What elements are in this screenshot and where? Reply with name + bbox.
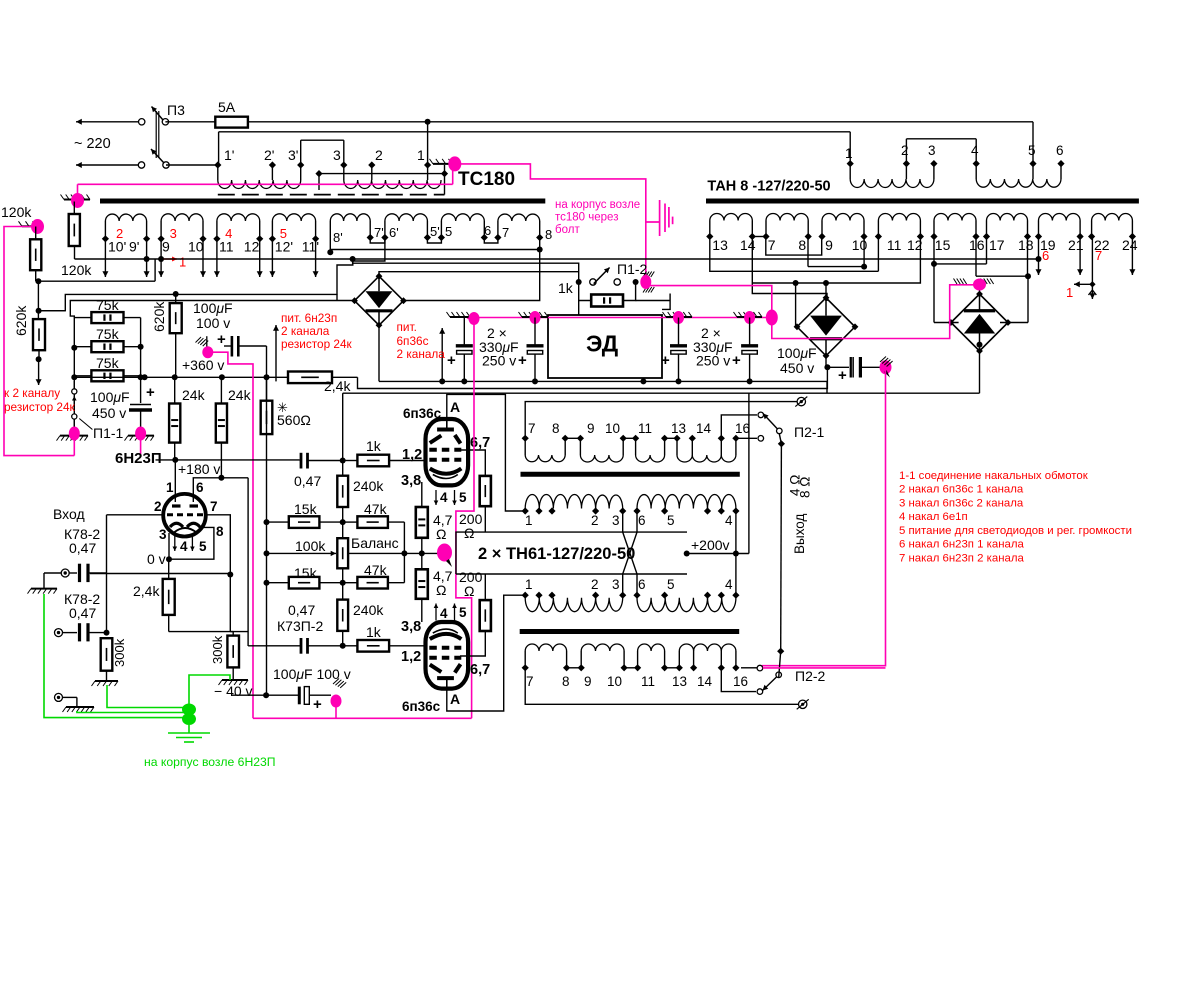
balance pot 100k bbox=[337, 538, 348, 568]
svg-text:120k: 120k bbox=[61, 262, 92, 278]
svg-text:6п36с: 6п36с bbox=[403, 406, 442, 421]
svg-text:18: 18 bbox=[1018, 237, 1034, 253]
resistor 240k #1 bbox=[337, 476, 348, 507]
green star ground node bbox=[182, 704, 196, 716]
wire bridge B1 left vertex feed bbox=[70, 301, 354, 348]
svg-text:2: 2 bbox=[375, 147, 383, 163]
resistor 75k #3 bbox=[91, 370, 123, 381]
wire grid pin7 to right bbox=[205, 515, 230, 632]
wire 6'5' tap staircase to left section bbox=[39, 238, 385, 311]
switch P2-2 bbox=[741, 667, 757, 669]
svg-text:21: 21 bbox=[1068, 237, 1084, 253]
magenta ground path to B3 with chassis hatch bbox=[772, 285, 976, 339]
svg-text:2: 2 bbox=[901, 143, 909, 158]
upper TH61 secondary winding 7-16 bbox=[522, 435, 529, 442]
svg-text:14: 14 bbox=[697, 674, 713, 689]
tube1 cathode to 4,7 Ohm bbox=[421, 482, 423, 507]
svg-text:11: 11 bbox=[638, 421, 652, 436]
6N23P plates bbox=[172, 504, 181, 507]
wire P1-2 right node link to B2 bbox=[636, 300, 671, 302]
TAH8 secondary winding 22-24 bbox=[1091, 221, 1093, 237]
junction at B2 top feed bbox=[823, 280, 829, 286]
resistor 300k #1 bbox=[101, 638, 113, 671]
ground chassis at TC180 pin 1 with magenta node bbox=[433, 163, 452, 165]
svg-text:+: + bbox=[447, 352, 456, 369]
svg-text:0,47: 0,47 bbox=[288, 602, 315, 618]
TC180 secondary winding 6'-5' bbox=[384, 221, 386, 238]
svg-text:3 накал 6п36с 2 канала: 3 накал 6п36с 2 канала bbox=[899, 497, 1024, 509]
ground chassis at P1-2 with magenta node bbox=[643, 272, 647, 278]
wire pin8 down to bridge B1 right vertex bbox=[404, 238, 539, 301]
svg-text:450 v: 450 v bbox=[780, 360, 814, 376]
wire ED box to B2 top link bbox=[662, 294, 670, 310]
svg-text:1: 1 bbox=[1066, 285, 1073, 300]
resistor 24k #2 bbox=[216, 404, 227, 443]
magenta ground bus over filter caps bbox=[468, 317, 772, 319]
620k resistor #2 bbox=[175, 294, 177, 303]
svg-text:8': 8' bbox=[333, 230, 343, 245]
svg-text:болт: болт bbox=[555, 224, 580, 236]
TC180 secondary filament winding 9-10 bbox=[160, 221, 162, 239]
crossover connection X bbox=[623, 511, 637, 595]
620k#1 bottom arrow bbox=[36, 356, 42, 362]
svg-text:пит.: пит. bbox=[397, 320, 417, 334]
svg-text:15: 15 bbox=[935, 237, 951, 253]
svg-text:П1-1: П1-1 bbox=[93, 425, 124, 441]
wire plate pin6 to 24k#2 bbox=[193, 478, 248, 495]
wire from switch to fuse bbox=[165, 121, 215, 123]
svg-text:3: 3 bbox=[159, 527, 167, 542]
svg-text:2: 2 bbox=[116, 226, 123, 241]
TC180 primary dashed shield line bbox=[218, 194, 445, 196]
input terminal 3 with ground bbox=[55, 693, 63, 701]
svg-text:4: 4 bbox=[725, 577, 733, 592]
wire lower pin7 to output terminal bbox=[525, 668, 798, 705]
svg-text:+: + bbox=[732, 352, 741, 369]
tie 5'-5 bbox=[427, 238, 441, 244]
svg-text:6: 6 bbox=[484, 223, 491, 238]
long heater link wire L1 bbox=[75, 258, 1039, 260]
wire upper pin7 to output terminal bbox=[525, 402, 797, 439]
svg-text:~ 220: ~ 220 bbox=[74, 136, 111, 152]
svg-text:47k: 47k bbox=[364, 501, 388, 517]
svg-text:16: 16 bbox=[735, 421, 750, 436]
svg-text:+200v: +200v bbox=[691, 537, 730, 553]
magenta wire from cap ground down to P2-2 bbox=[762, 367, 886, 665]
balance bus vertical down to -40v bbox=[266, 434, 268, 695]
transformer TAH8 primary winding 4-5-6 bbox=[973, 160, 980, 167]
bridge rectifier B2 (middle) bbox=[797, 298, 855, 356]
green earth symbol bbox=[188, 725, 190, 733]
svg-text:5: 5 bbox=[199, 539, 207, 554]
svg-text:на корпус возле: на корпус возле bbox=[555, 199, 640, 211]
green ground wire from input terminal 1 bbox=[44, 594, 186, 718]
svg-text:2 накал 6п36с 1 канала: 2 накал 6п36с 1 канала bbox=[899, 484, 1024, 496]
electronic choke block ED bbox=[548, 315, 662, 378]
svg-text:5': 5' bbox=[430, 224, 440, 239]
svg-text:6: 6 bbox=[1056, 143, 1064, 158]
wire grid row to pin7 drop bbox=[90, 573, 230, 575]
svg-text:15k: 15k bbox=[294, 565, 318, 581]
svg-text:+: + bbox=[661, 352, 670, 369]
svg-text:К73П-2: К73П-2 bbox=[277, 618, 323, 634]
ground chassis at cap C2c bbox=[737, 316, 762, 318]
svg-text:+: + bbox=[146, 384, 155, 401]
resistor 2,4k in +360v line bbox=[288, 372, 332, 384]
svg-text:8: 8 bbox=[545, 227, 552, 242]
input terminal 1 bbox=[61, 569, 69, 577]
svg-text:пит. 6н23п: пит. 6н23п bbox=[281, 311, 337, 325]
arrow down from pin 12' lead bbox=[271, 239, 273, 277]
TC180 primary tap junction bbox=[315, 170, 322, 177]
switch P3 gang linkage bbox=[155, 111, 157, 158]
ground chassis input 1 bbox=[31, 588, 57, 590]
svg-text:+: + bbox=[838, 367, 847, 384]
wire 120k#2 bottom junction bbox=[35, 270, 37, 281]
wire B1 bottom to minus bus bbox=[378, 325, 380, 381]
svg-text:5: 5 bbox=[459, 605, 467, 620]
resistor 560 Ohm bbox=[261, 401, 273, 434]
svg-text:16: 16 bbox=[969, 237, 985, 253]
arrow down from pin 11 lead bbox=[216, 239, 218, 277]
tube2 screen wire and 200 Ohm bbox=[460, 631, 485, 656]
wire pin6 node down long (to K73P-2 row) bbox=[247, 478, 249, 646]
ground chassis with magenta node at cap bottom bbox=[128, 435, 154, 437]
red note pit 6p36s 2 kanala with arrow bbox=[441, 328, 443, 381]
100k wiper arrow bbox=[264, 550, 270, 556]
magenta bias bus bottom bbox=[253, 717, 472, 719]
svg-text:1: 1 bbox=[179, 255, 186, 270]
svg-text:4: 4 bbox=[725, 513, 733, 528]
resistor 47k #2 bbox=[357, 577, 388, 589]
svg-text:7 накал 6н23п 2 канала: 7 накал 6н23п 2 канала bbox=[899, 552, 1024, 564]
svg-text:2,4k: 2,4k bbox=[133, 583, 160, 599]
resistor 1k #2 bbox=[343, 645, 358, 647]
svg-text:Ω: Ω bbox=[464, 583, 474, 599]
svg-text:0 v: 0 v bbox=[147, 551, 166, 567]
resistor 240k #2 bbox=[337, 600, 348, 631]
magenta heater bus wire (top long) bbox=[78, 183, 453, 185]
svg-text:+: + bbox=[518, 352, 527, 369]
svg-text:7: 7 bbox=[526, 674, 534, 689]
PSU minus bus Y1 bbox=[379, 380, 827, 382]
svg-text:5 питание для светодиодов и ре: 5 питание для светодиодов и рег. громкос… bbox=[899, 525, 1132, 537]
svg-text:П3: П3 bbox=[167, 102, 185, 118]
ground chassis 300k#2 bbox=[232, 667, 234, 680]
wire grid pin2 to input bbox=[107, 514, 165, 516]
resistor 47k #1 bbox=[357, 516, 388, 528]
ground chassis with magenta node at 120k#2 top bbox=[22, 225, 36, 227]
svg-text:2': 2' bbox=[264, 147, 274, 163]
wire +360v feed Y2 bbox=[358, 367, 828, 388]
svg-text:1,2: 1,2 bbox=[401, 649, 421, 665]
svg-text:6: 6 bbox=[196, 480, 204, 495]
svg-text:1k: 1k bbox=[366, 624, 382, 640]
svg-text:100μF: 100μF bbox=[90, 389, 130, 405]
svg-text:3': 3' bbox=[288, 147, 298, 163]
svg-text:75k: 75k bbox=[96, 326, 120, 342]
svg-text:Выход: Выход bbox=[792, 513, 807, 554]
bracket TC180 3prim to 3 bbox=[301, 139, 344, 141]
svg-text:240k: 240k bbox=[353, 602, 384, 618]
svg-text:6: 6 bbox=[1042, 248, 1049, 263]
TAH8 secondary winding 7-8 bbox=[765, 221, 767, 237]
wire TAH8 pin12 link bbox=[752, 237, 920, 284]
upper TH61 primary winding 1-4 bbox=[522, 507, 529, 514]
svg-text:13: 13 bbox=[672, 674, 687, 689]
wire P1-2 node down to ED box bbox=[578, 301, 580, 316]
svg-text:24: 24 bbox=[1122, 237, 1138, 253]
svg-text:− 40 v: − 40 v bbox=[214, 683, 253, 699]
svg-text:2 канала: 2 канала bbox=[281, 324, 330, 338]
svg-text:8 Ω: 8 Ω bbox=[798, 477, 813, 498]
svg-text:6,7: 6,7 bbox=[470, 435, 490, 451]
arrow down from pin 9' lead bbox=[146, 239, 148, 259]
TAH8 7-9 lower tie loop bbox=[766, 237, 822, 256]
svg-text:2 × ТН61-127/220-50: 2 × ТН61-127/220-50 bbox=[478, 545, 635, 563]
ground chassis at cap C2a bbox=[522, 316, 548, 318]
svg-text:12: 12 bbox=[244, 239, 260, 255]
TC180 secondary filament winding 11-12 bbox=[216, 221, 218, 239]
tube 6N23P envelope bbox=[163, 494, 206, 537]
ground chassis at cap C2b (right group) bbox=[666, 316, 692, 318]
transformer TAH8 primary winding 1-2-3 bbox=[847, 160, 854, 167]
magenta wire P1-2 ground to filter ground bus bbox=[646, 282, 772, 318]
svg-text:620k: 620k bbox=[151, 301, 167, 332]
tube1 screen wire and 200 Ohm bbox=[460, 450, 485, 476]
magenta feedback node blob bbox=[437, 544, 452, 562]
TC180 core bar bbox=[100, 199, 545, 204]
svg-text:11: 11 bbox=[641, 674, 655, 689]
resistor 75k #2 bbox=[91, 341, 123, 352]
svg-text:1: 1 bbox=[166, 480, 174, 495]
svg-text:1,2: 1,2 bbox=[402, 447, 422, 463]
arrow down from pin 10 lead bbox=[202, 239, 204, 277]
svg-text:3: 3 bbox=[612, 513, 620, 528]
arrow down from pin 12 lead bbox=[259, 239, 261, 277]
svg-text:на корпус возле 6Н23П: на корпус возле 6Н23П bbox=[144, 755, 276, 769]
svg-text:3: 3 bbox=[333, 147, 341, 163]
top mains wire from fuse to TAH8 pin 5 bbox=[248, 121, 1033, 123]
svg-text:250 v: 250 v bbox=[482, 353, 516, 369]
ground chassis 300k#1 bbox=[106, 671, 108, 681]
svg-text:5: 5 bbox=[1028, 143, 1036, 158]
lower TH61 secondary winding 7-16 bbox=[522, 664, 529, 671]
svg-text:ТС180: ТС180 bbox=[458, 169, 515, 190]
-40v bias line bbox=[231, 694, 299, 696]
tube 6P36S #2 (lower) bbox=[426, 622, 469, 689]
wire Y3 left end down to coupling row bbox=[342, 393, 344, 460]
svg-text:1-1 соединение накальных обмот: 1-1 соединение накальных обмоток bbox=[899, 470, 1089, 482]
svg-text:7: 7 bbox=[768, 237, 776, 253]
output terminal upper bbox=[797, 397, 805, 405]
wire B3 bottom down to long return line bbox=[979, 351, 981, 393]
svg-text:24k: 24k bbox=[228, 387, 252, 403]
svg-text:+360 v: +360 v bbox=[182, 357, 224, 373]
switch P2-1 bbox=[721, 415, 757, 438]
wire left bus to 75k ladder bbox=[73, 348, 75, 434]
svg-text:13: 13 bbox=[712, 237, 728, 253]
arrow down from pin 9 lead with junction bbox=[160, 239, 162, 259]
svg-text:5: 5 bbox=[280, 226, 287, 241]
svg-text:6: 6 bbox=[638, 513, 646, 528]
svg-text:П1-2: П1-2 bbox=[617, 261, 648, 277]
tie TAH8 14-7 bbox=[752, 236, 766, 238]
switch P3 lower pole bbox=[138, 162, 144, 168]
svg-text:13: 13 bbox=[671, 421, 686, 436]
svg-text:8: 8 bbox=[216, 524, 224, 539]
resistor 4,7 Ohm #1 bbox=[416, 507, 428, 538]
magenta node big at right end of ground bus bbox=[766, 310, 778, 326]
tie 7'-6' bbox=[370, 238, 385, 244]
TAH8 secondary winding 13-14 bbox=[709, 221, 711, 237]
svg-text:1: 1 bbox=[845, 146, 853, 161]
svg-text:11': 11' bbox=[302, 239, 319, 255]
svg-text:1': 1' bbox=[224, 147, 234, 163]
svg-text:П2-1: П2-1 bbox=[794, 424, 825, 440]
switch P1-1 bbox=[72, 389, 77, 394]
TC180 secondary winding 5-6 bbox=[440, 221, 442, 238]
svg-text:4: 4 bbox=[440, 490, 448, 505]
svg-text:250 v: 250 v bbox=[696, 353, 730, 369]
magenta wire from ED ground bus down to node bbox=[456, 319, 474, 553]
svg-text:4: 4 bbox=[225, 226, 232, 241]
capacitor 0,47 top bbox=[300, 453, 303, 469]
svg-text:A: A bbox=[450, 399, 460, 415]
resistor 1k P1-2 bbox=[591, 295, 623, 307]
svg-text:4: 4 bbox=[971, 143, 979, 158]
bridge rectifier B1 (left) bbox=[355, 276, 404, 325]
capacitor 330uF #2 bbox=[534, 318, 536, 345]
svg-text:2,4k: 2,4k bbox=[324, 378, 351, 394]
svg-text:15k: 15k bbox=[294, 501, 318, 517]
tube1 heater arrows 4 5 bbox=[435, 490, 437, 505]
svg-text:5: 5 bbox=[445, 224, 452, 239]
svg-text:100μF: 100μF bbox=[777, 345, 817, 361]
svg-text:2: 2 bbox=[154, 499, 162, 514]
svg-text:10: 10 bbox=[188, 239, 204, 255]
TAH8 secondary winding 19-21 bbox=[1038, 221, 1040, 237]
svg-text:резистор 24к: резистор 24к bbox=[4, 400, 76, 414]
svg-text:16: 16 bbox=[733, 674, 748, 689]
svg-text:2 канала: 2 канала bbox=[397, 347, 446, 361]
svg-text:Ω: Ω bbox=[464, 525, 474, 541]
svg-text:3: 3 bbox=[170, 226, 177, 241]
transformer TC180 primary winding right 3-2-1 bbox=[340, 161, 347, 168]
svg-text:100 v: 100 v bbox=[196, 315, 230, 331]
wire TAH8 pin16/18 down to bridge B3 right bbox=[975, 237, 977, 277]
svg-text:0,47: 0,47 bbox=[69, 605, 96, 621]
capacitor 100uF 450v horizontal bbox=[824, 364, 830, 370]
resistor 120k #2 bbox=[30, 239, 41, 270]
resistor 24k #1 bbox=[169, 404, 180, 443]
bridge rectifier B3 (right) bbox=[951, 294, 1008, 351]
wire TAH8 pin13 down link bbox=[710, 237, 879, 272]
resistor 200 Ohm #2 bbox=[480, 600, 491, 631]
wire B1 top to P1-2 switch bbox=[379, 272, 579, 277]
TAH8 core bar bbox=[706, 199, 1139, 204]
ground chassis left end with magenta arrow bbox=[450, 316, 470, 318]
svg-text:2: 2 bbox=[591, 513, 599, 528]
svg-text:8: 8 bbox=[552, 421, 560, 436]
resistor 120k #1 (under first ground) bbox=[69, 214, 80, 246]
ground magenta node at 100uF450v cap bbox=[880, 360, 892, 374]
TC180 secondary filament winding 12'-11' bbox=[271, 221, 273, 239]
junction at TC180 pin 1 bbox=[425, 119, 431, 125]
svg-text:120k: 120k bbox=[1, 204, 32, 220]
ground arrow with magenta node (100uF100v top cap) bbox=[196, 337, 202, 343]
svg-text:14: 14 bbox=[740, 237, 756, 253]
svg-text:Ω: Ω bbox=[436, 582, 446, 598]
svg-text:240k: 240k bbox=[353, 478, 384, 494]
arrow down from pin 10' lead bbox=[104, 239, 106, 277]
svg-text:6Н23П: 6Н23П bbox=[115, 450, 162, 467]
svg-text:300k: 300k bbox=[210, 635, 225, 664]
TH61 label box bbox=[456, 532, 687, 574]
resistor 300k #2 bbox=[227, 636, 239, 668]
heater wire pin24 arrow bbox=[1131, 237, 1133, 276]
resistor 75k #1 bbox=[91, 312, 123, 323]
svg-text:Ω: Ω bbox=[436, 526, 446, 542]
heater wire pin21 arrow bbox=[1079, 237, 1081, 276]
svg-text:3: 3 bbox=[928, 143, 936, 158]
speaker link vertical P2-1 to P2-2 bbox=[780, 444, 783, 651]
svg-text:75k: 75k bbox=[96, 297, 120, 313]
svg-text:5: 5 bbox=[667, 513, 675, 528]
svg-text:1: 1 bbox=[417, 147, 425, 163]
resistor 200 Ohm #1 bbox=[480, 476, 491, 506]
620k resistor top-left vertical lead bbox=[74, 246, 76, 259]
arrow down from pin 11' lead bbox=[315, 239, 317, 277]
TC180 secondary filament winding 10'-9' bbox=[104, 221, 106, 239]
svg-text:7: 7 bbox=[1095, 248, 1102, 263]
svg-text:100μF 100 v: 100μF 100 v bbox=[273, 666, 351, 682]
wire B2 bottom to 100uF cap junction bbox=[825, 356, 827, 368]
resistor 15k #1 bbox=[289, 516, 320, 528]
transformer TC180 primary winding left 1'-2'-3' bbox=[214, 161, 221, 168]
lower TH61 core bar bbox=[520, 629, 740, 634]
wire TAH8 pin8-pin10 lower link bbox=[807, 237, 809, 267]
capacitor 330uF #4 bbox=[749, 318, 751, 345]
wire +200v up to return line Y3 bbox=[748, 393, 750, 553]
heater wire pin22 junction with arrows bbox=[1091, 237, 1093, 285]
capacitor 330uF #1 bbox=[463, 318, 465, 345]
green ground wire from 300k#1 bbox=[107, 685, 186, 708]
wire B3 top to magenta ground bbox=[979, 286, 981, 294]
svg-text:к 2 каналу: к 2 каналу bbox=[4, 386, 60, 400]
svg-text:620k: 620k bbox=[13, 305, 29, 336]
svg-text:10: 10 bbox=[605, 421, 620, 436]
47k right bus bbox=[403, 522, 405, 583]
svg-text:резистор 24к: резистор 24к bbox=[281, 337, 353, 351]
wire TAH8 pin14 down to bridge B2 top bbox=[752, 237, 827, 302]
tube 6P36S #1 (upper) bbox=[426, 419, 469, 485]
svg-text:6п36с: 6п36с bbox=[402, 699, 441, 714]
svg-text:14: 14 bbox=[696, 421, 712, 436]
wire cathode pin3 to 0v node bbox=[168, 533, 170, 559]
wire 75k right bus bbox=[140, 347, 142, 378]
6N23P heater arrows 4 5 bbox=[174, 536, 176, 551]
TAH8 secondary winding 15-16 bbox=[933, 221, 935, 237]
heater wire pin19 arrow bbox=[1038, 237, 1040, 260]
capacitor 330uF #3 bbox=[678, 318, 680, 345]
svg-text:7: 7 bbox=[502, 225, 509, 240]
svg-text:П2-2: П2-2 bbox=[795, 668, 826, 684]
svg-text:7: 7 bbox=[210, 499, 218, 514]
svg-text:1k: 1k bbox=[366, 438, 382, 454]
svg-text:11: 11 bbox=[887, 237, 902, 253]
switch P3 upper pole bbox=[139, 119, 145, 125]
